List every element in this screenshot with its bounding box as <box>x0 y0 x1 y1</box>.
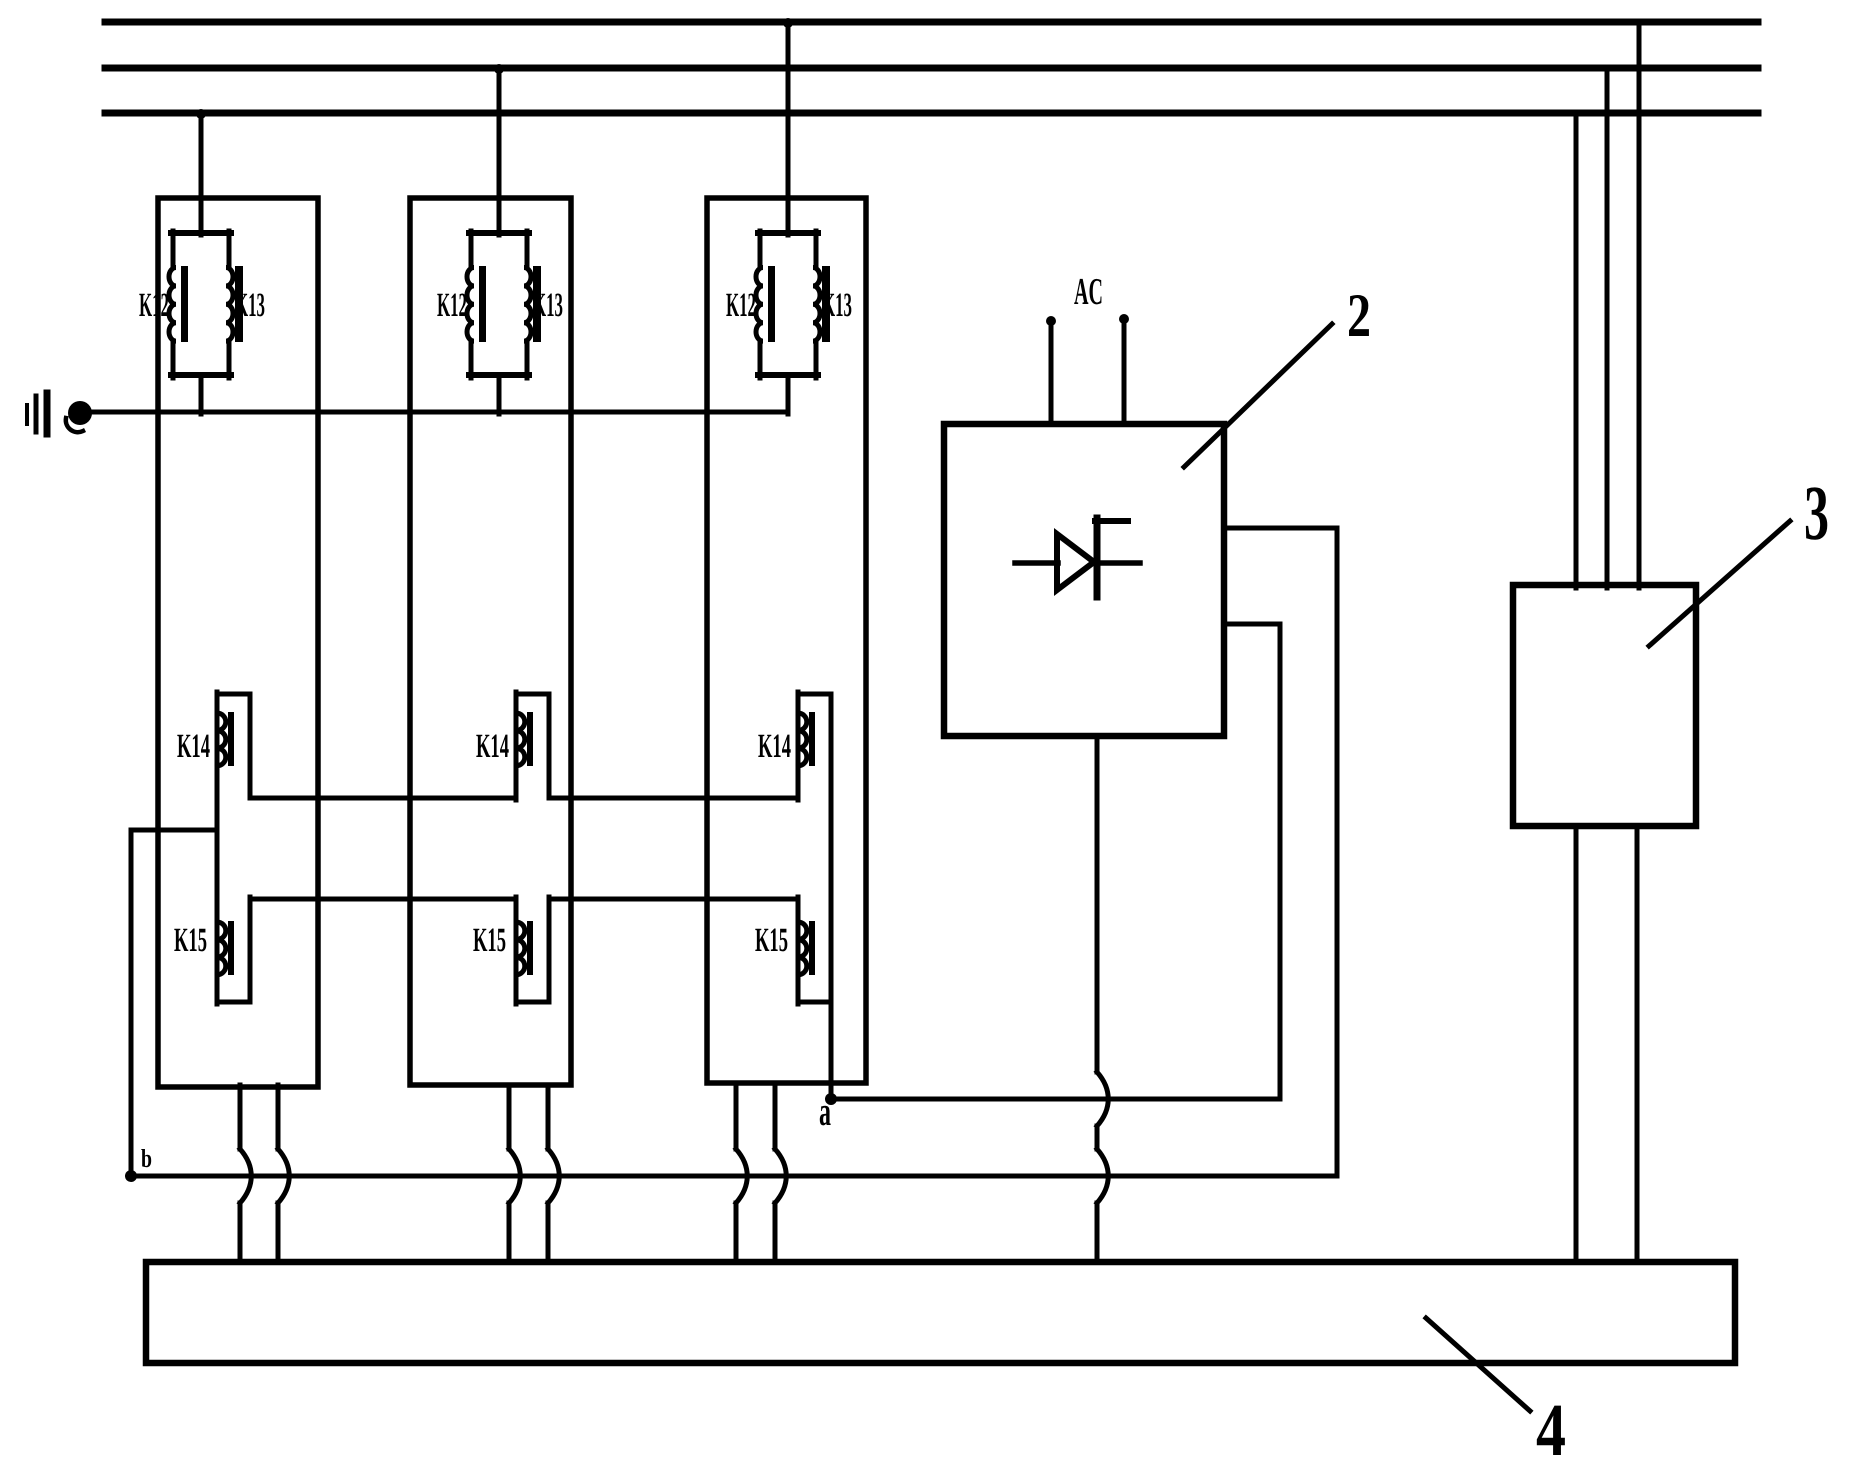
wire bus line 3 (bottom phase rail) <box>105 110 1758 117</box>
wire K14 spine unit 2 <box>514 692 519 800</box>
wire node b riser <box>129 830 134 1178</box>
unit 3 enclosure box <box>707 198 866 1083</box>
label K14 of unit 1 <box>177 728 210 765</box>
wire node a horizontal line <box>831 1097 1280 1102</box>
terminal tick 1 <box>25 405 29 424</box>
contact K14 element unit 1 <box>217 694 250 798</box>
svg-text:3: 3 <box>1804 469 1829 556</box>
svg-text:K12: K12 <box>437 287 467 324</box>
wire bus line 2 (middle phase rail) <box>105 65 1758 72</box>
svg-text:b: b <box>141 1144 152 1173</box>
junction dot node b <box>125 1170 137 1182</box>
contact K14 element unit 3 <box>798 694 831 1099</box>
coil K12/K13 element of unit 2 <box>467 231 541 414</box>
unit 1 enclosure box <box>158 198 318 1087</box>
wire node b horizontal line <box>131 1174 1337 1179</box>
svg-text:K13: K13 <box>822 287 852 324</box>
terminal tick 2 <box>34 396 39 432</box>
label K12 of unit 2 <box>437 287 467 324</box>
wire riser b-line to box 2 upper output <box>1335 528 1340 1176</box>
thyristor V1 triangle <box>1057 534 1094 590</box>
label numeral 3 <box>1804 469 1829 556</box>
wire unit 3 right lead to box 4 <box>775 1085 786 1262</box>
wire drop bus3 to box 3 <box>1574 113 1579 588</box>
wire unit 1 left lead to box 4 <box>240 1085 251 1262</box>
contact K15 element unit 3 <box>798 921 831 1002</box>
label K12 of unit 3 <box>726 287 756 324</box>
AC input terminal 2 <box>1119 314 1129 424</box>
wire spine feed from node b riser <box>131 828 217 833</box>
box 2 controller enclosure <box>944 424 1224 736</box>
svg-text:K14: K14 <box>758 728 791 765</box>
contact K15 element unit 1 <box>217 897 250 1002</box>
wire K14 chain unit1 to unit2 <box>250 796 516 801</box>
thyristor cathode bar <box>1094 518 1101 597</box>
terminal bar <box>44 393 51 434</box>
wire drop bus2 to box 3 <box>1605 68 1610 588</box>
label K13 of unit 1 <box>235 287 265 324</box>
svg-text:K14: K14 <box>177 728 210 765</box>
wire drop bus1 to box 3 <box>1637 22 1642 588</box>
box 3 enclosure <box>1513 585 1696 826</box>
label K13 of unit 3 <box>822 287 852 324</box>
contact K14 element unit 2 <box>516 694 549 798</box>
wire box 3 output right to box 4 <box>1635 826 1640 1262</box>
box 4 common bus enclosure <box>146 1262 1735 1363</box>
terminal contact ball <box>66 401 92 432</box>
leader line for numeral 2 <box>1184 324 1332 467</box>
wire unit 3 left lead to box 4 <box>736 1085 747 1262</box>
svg-text:K15: K15 <box>473 922 506 959</box>
wire box 2 upper output <box>1224 526 1337 531</box>
wire riser a-line to box 2 lower output <box>1278 624 1283 1099</box>
wire K15 spine unit 2 <box>514 897 519 1004</box>
thyristor gate lead <box>1095 518 1128 524</box>
wire unit 2 right lead to box 4 <box>548 1085 559 1262</box>
label K13 of unit 2 <box>533 287 563 324</box>
svg-text:K13: K13 <box>235 287 265 324</box>
junction dot node a <box>825 1093 837 1105</box>
wire drop from bus 3 to unit 1 coil <box>199 113 204 235</box>
wire K14 spine unit 3 <box>796 692 801 800</box>
wire box 3 output left to box 4 <box>1574 826 1579 1262</box>
wire drop from bus 2 to unit 2 coil <box>497 68 502 235</box>
wire box 2 lower output <box>1224 622 1280 627</box>
label AC <box>1074 271 1103 313</box>
label K14 of unit 3 <box>758 728 791 765</box>
svg-text:K12: K12 <box>139 287 169 324</box>
svg-text:K15: K15 <box>174 922 207 959</box>
label numeral 2 <box>1347 282 1371 350</box>
coil K12/K13 element of unit 3 <box>756 231 830 414</box>
wire drop from bus 1 to unit 3 coil <box>786 22 791 235</box>
label K15 of unit 2 <box>473 922 506 959</box>
wire unit 2 left lead to box 4 <box>509 1085 520 1262</box>
label K12 of unit 1 <box>139 287 169 324</box>
leader line for numeral 4 <box>1426 1318 1530 1411</box>
contact K15 element unit 2 <box>516 897 549 1002</box>
junction dot on bus 3 at x=201 <box>196 109 206 119</box>
wire box 2 gate/bottom lead to box 4 <box>1097 736 1108 1262</box>
label K15 of unit 1 <box>174 922 207 959</box>
thyristor cathode lead <box>1097 560 1140 566</box>
svg-text:K14: K14 <box>476 728 509 765</box>
svg-text:AC: AC <box>1074 271 1103 313</box>
junction dot on bus 1 at x=788 <box>783 18 793 28</box>
svg-text:K13: K13 <box>533 287 563 324</box>
svg-text:2: 2 <box>1347 282 1371 350</box>
label numeral 4 <box>1536 1389 1566 1472</box>
label b <box>141 1144 152 1173</box>
label K15 of unit 3 <box>755 922 788 959</box>
svg-text:K12: K12 <box>726 287 756 324</box>
coil K12/K13 element of unit 1 <box>169 231 243 414</box>
wire K15 spine unit 3 <box>796 897 801 1004</box>
unit 2 enclosure box <box>410 198 571 1085</box>
wire bus line 1 (top phase rail) <box>105 19 1758 26</box>
wire K15 chain unit1 to unit2 <box>250 897 516 902</box>
svg-text:K15: K15 <box>755 922 788 959</box>
wire K14 chain unit2 to unit3 <box>549 796 798 801</box>
leader line for numeral 3 <box>1649 521 1790 646</box>
AC input terminal 1 <box>1046 316 1056 424</box>
wire coil common return line <box>93 410 788 415</box>
label a <box>819 1088 831 1134</box>
svg-text:4: 4 <box>1536 1389 1566 1472</box>
thyristor anode lead <box>1015 560 1058 566</box>
svg-text:a: a <box>819 1088 831 1134</box>
label K14 of unit 2 <box>476 728 509 765</box>
wire K15 chain unit2 to unit3 <box>549 897 798 902</box>
junction dot on bus 2 at x=499 <box>494 64 504 74</box>
wire contact spine unit 1 <box>215 692 220 1004</box>
wire unit 1 right lead to box 4 <box>278 1085 289 1262</box>
